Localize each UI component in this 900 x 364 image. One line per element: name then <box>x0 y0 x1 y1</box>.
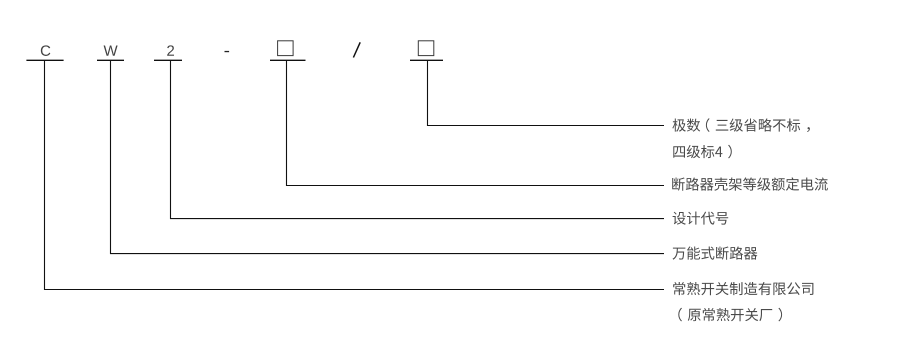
symbol 2 <box>167 45 174 55</box>
wire from square 1 to 断路器壳架等级额定电流 label <box>287 60 665 185</box>
underline under W <box>97 59 124 61</box>
underline under C <box>26 59 63 61</box>
label 设计代号 <box>673 212 729 225</box>
label 断路器壳架等级额定电流 <box>672 177 828 190</box>
slash separator <box>353 42 360 57</box>
wire from W to 万能式断路器 label <box>111 60 665 253</box>
wire from square 2 to 极数 label <box>428 60 665 125</box>
underline under 2 <box>154 59 182 61</box>
label 极数 line2 <box>673 145 732 159</box>
label 常熟开关制造有限公司 line1 <box>673 282 813 295</box>
wire from 2 to 设计代号 label <box>171 60 665 218</box>
wire from C to 常熟开关制造有限公司 label <box>45 60 665 289</box>
label 极数 line1 <box>672 118 810 132</box>
label 原常熟开关厂 line2 <box>678 308 782 322</box>
symbol W <box>104 45 118 55</box>
box square 1 <box>278 41 294 56</box>
label 万能式断路器 <box>673 247 758 260</box>
box square 2 <box>418 41 434 56</box>
hyphen separator <box>225 51 230 52</box>
underline under square 2 <box>410 59 443 61</box>
symbol C <box>41 45 51 56</box>
underline under square 1 <box>270 59 306 61</box>
